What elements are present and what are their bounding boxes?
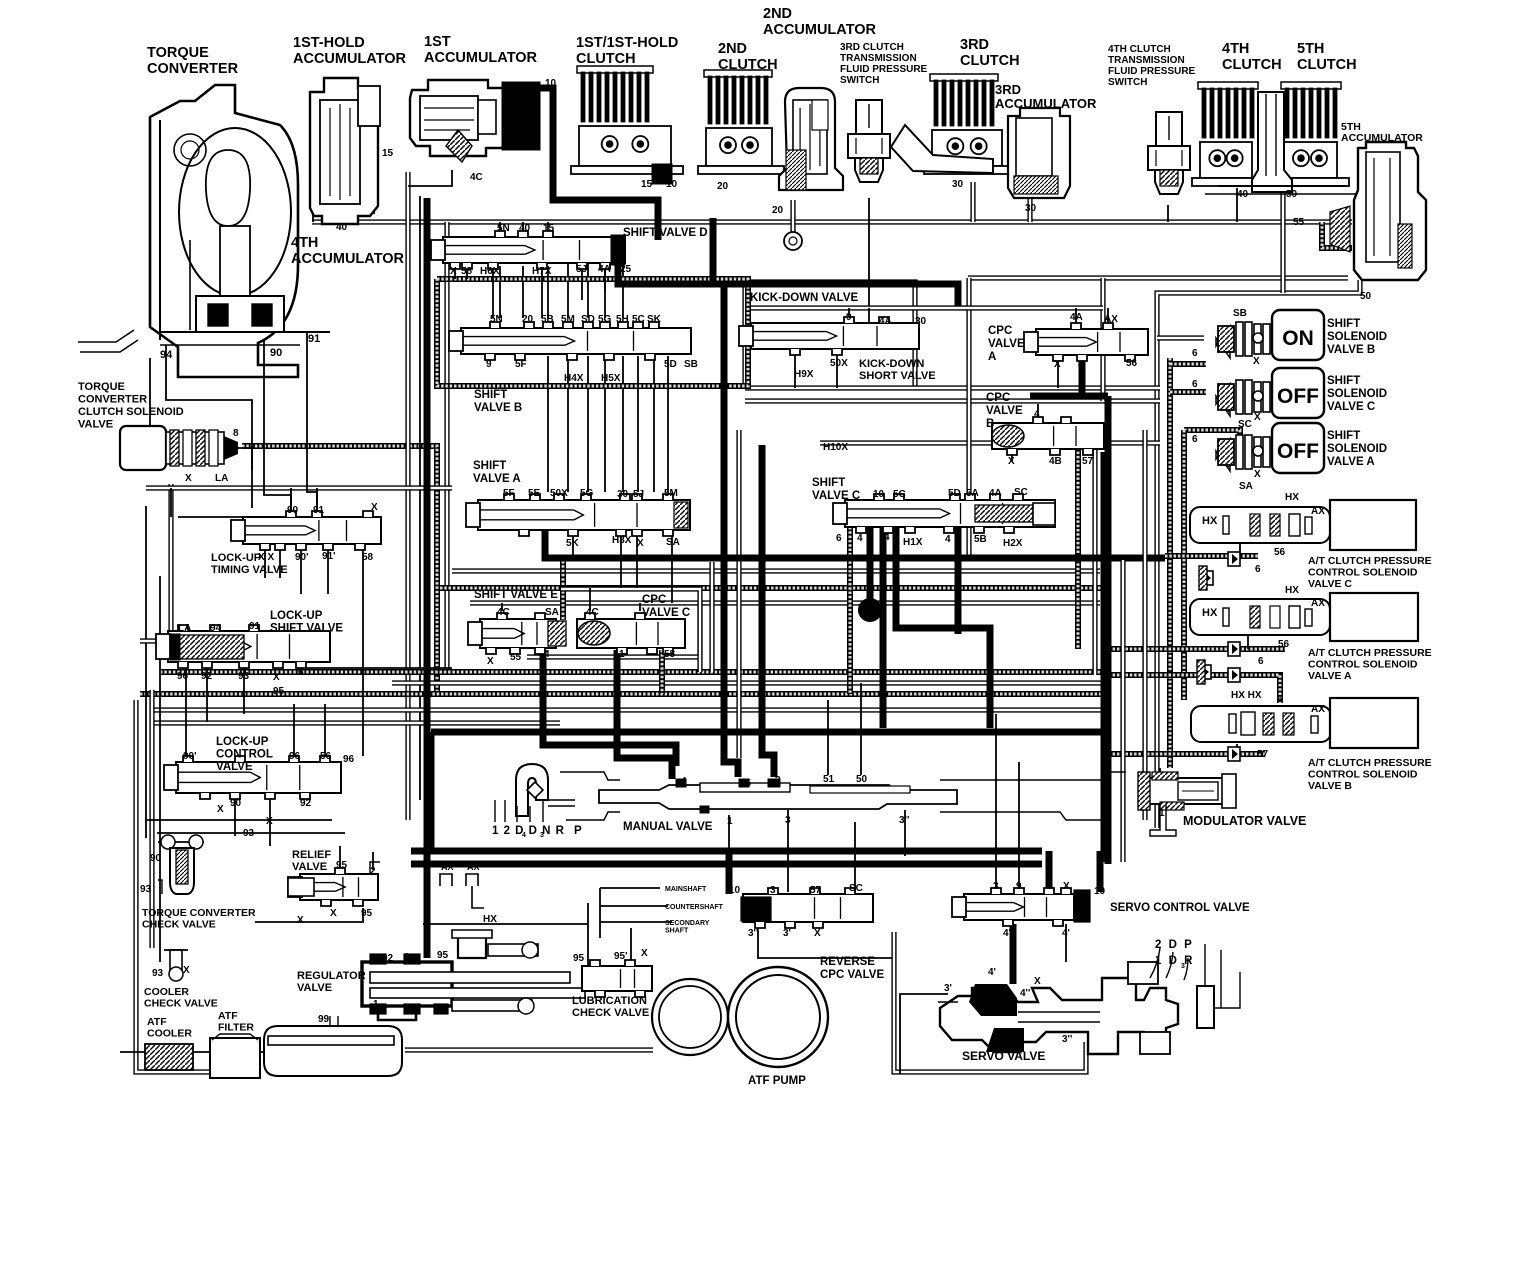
wire servo control feeds — [995, 714, 997, 892]
svg-text:95: 95 — [361, 908, 373, 919]
svg-text:50: 50 — [1360, 291, 1372, 302]
svg-text:90: 90 — [287, 505, 299, 516]
svg-text:3: 3 — [785, 815, 791, 826]
svg-text:SECONDARY: SECONDARY — [665, 920, 710, 927]
shift valve D VD — [431, 231, 625, 269]
svg-text:TORQUE: TORQUE — [78, 381, 125, 393]
svg-text:20: 20 — [717, 181, 729, 192]
svg-text:X: X — [217, 804, 224, 815]
regulator valve VREG — [362, 930, 585, 1020]
svg-text:4': 4' — [1062, 928, 1070, 939]
svg-text:HX: HX — [1202, 607, 1218, 619]
svg-text:91': 91' — [322, 551, 336, 562]
lock-up control valve VLC — [164, 756, 341, 799]
svg-text:5TH: 5TH — [1297, 41, 1324, 57]
svg-text:RELIEF: RELIEF — [292, 849, 331, 861]
svg-text:LA: LA — [215, 473, 228, 484]
svg-text:LA: LA — [178, 623, 191, 634]
svg-text:4TH: 4TH — [291, 235, 318, 251]
kick-down valve VKD — [739, 317, 919, 355]
wire mid band y710 — [152, 707, 1104, 712]
wire solenoid hatch line — [242, 446, 437, 692]
svg-text:AX: AX — [1104, 314, 1118, 325]
wire valveD bottom stubs — [454, 266, 456, 279]
svg-text:1 2 D D N R: 1 2 D D N R — [492, 825, 565, 837]
svg-text:20: 20 — [522, 314, 534, 325]
lock-up timing valve VLT — [231, 511, 381, 550]
svg-text:3'': 3'' — [748, 928, 758, 939]
svg-text:AX: AX — [441, 862, 454, 872]
svg-text:15: 15 — [382, 148, 394, 159]
svg-text:VALVE C: VALVE C — [1308, 578, 1352, 590]
svg-text:92: 92 — [382, 953, 394, 964]
svg-text:AX: AX — [1311, 506, 1325, 517]
svg-text:4: 4 — [544, 649, 550, 660]
svg-text:57: 57 — [1257, 749, 1269, 760]
cpc valve A CPCA — [1024, 323, 1148, 361]
svg-text:VALVE B: VALVE B — [1308, 780, 1352, 792]
svg-text:3: 3 — [770, 885, 776, 896]
svg-text:ACCUMULATOR: ACCUMULATOR — [763, 22, 877, 38]
svg-text:A: A — [988, 351, 996, 363]
svg-text:SHIFT: SHIFT — [1327, 375, 1360, 387]
wire lockup bottom rails — [147, 819, 332, 821]
at cps valve B CPSB — [1191, 698, 1418, 748]
svg-text:FLUID PRESSURE: FLUID PRESSURE — [1108, 66, 1196, 77]
svg-text:X: X — [641, 948, 648, 959]
svg-text:5N: 5N — [497, 223, 510, 234]
wire SB feed to solenoid — [1157, 335, 1204, 340]
1st/1st-hold clutch CL1 — [571, 66, 683, 174]
wire 55 elbow to 5th accumulator — [1322, 222, 1352, 248]
svg-text:VALVE C: VALVE C — [642, 607, 690, 619]
svg-text:30: 30 — [617, 489, 629, 500]
wire valveB top feeds — [567, 250, 569, 318]
wire lockup top frame — [146, 485, 452, 490]
svg-text:AX: AX — [1311, 704, 1325, 715]
svg-text:X: X — [1253, 356, 1260, 367]
svg-text:5M: 5M — [561, 314, 575, 325]
wire 58 drop — [362, 546, 364, 756]
svg-text:3'': 3'' — [899, 815, 909, 826]
at cps valve A CPSA — [1190, 593, 1418, 641]
svg-text:5B: 5B — [541, 314, 554, 325]
wire mid band y683 — [392, 680, 1104, 685]
svg-text:5G: 5G — [598, 314, 612, 325]
svg-text:5F: 5F — [503, 488, 515, 499]
svg-text:ATF PUMP: ATF PUMP — [748, 1075, 806, 1087]
wire soltc out — [238, 448, 252, 470]
svg-text:10: 10 — [729, 885, 741, 896]
svg-text:56: 56 — [320, 751, 332, 762]
wire mid y603 — [470, 600, 1100, 605]
wire lockup shift valve 6 out — [305, 667, 452, 669]
svg-text:10: 10 — [873, 489, 885, 500]
svg-text:3'': 3'' — [1062, 1034, 1072, 1045]
wire 3rd switch drop — [868, 198, 870, 308]
svg-text:SHIFT VALVE: SHIFT VALVE — [270, 623, 343, 635]
wire y924 run — [423, 923, 588, 925]
svg-text:A/T CLUTCH PRESSURE: A/T CLUTCH PRESSURE — [1308, 647, 1432, 659]
wire cpcA frame right — [1100, 278, 1105, 401]
svg-text:4: 4 — [1034, 409, 1040, 420]
svg-text:4A: 4A — [598, 264, 611, 275]
svg-text:1: 1 — [373, 999, 379, 1010]
svg-text:COOLER: COOLER — [144, 986, 189, 998]
svg-text:HX HX: HX HX — [1231, 690, 1262, 701]
svg-text:9: 9 — [1016, 881, 1022, 892]
wire valveC port6 hatch — [847, 527, 853, 694]
wire 94 drop — [166, 345, 252, 508]
wire servo control 4 thick — [1046, 851, 1053, 890]
torque converter clutch solenoid valve SOLTC — [120, 426, 238, 470]
svg-text:B: B — [986, 418, 994, 430]
svg-text:2: 2 — [775, 775, 781, 786]
black port block CL1 — [652, 164, 672, 184]
svg-text:57: 57 — [1082, 456, 1094, 467]
wire manual port1 drop — [728, 815, 730, 851]
shift solenoid valve B SSB — [1216, 310, 1324, 360]
wire regulator relief link — [255, 908, 363, 922]
wire servo frame right — [894, 932, 1086, 1072]
wire lockup timing left feed — [178, 516, 243, 518]
node ball check — [859, 599, 881, 621]
wire valveA bottom stubs — [572, 535, 574, 558]
svg-text:ACCUMULATOR: ACCUMULATOR — [995, 96, 1097, 111]
svg-text:40: 40 — [519, 223, 531, 234]
svg-text:6: 6 — [1255, 564, 1261, 575]
svg-text:58: 58 — [461, 266, 473, 277]
shift valve A VA — [466, 494, 690, 536]
svg-text:SB: SB — [684, 359, 698, 370]
wire pump to strainer — [405, 1047, 653, 1052]
wire hatch cps A — [1104, 646, 1285, 652]
svg-text:SHORT VALVE: SHORT VALVE — [859, 370, 936, 382]
svg-text:50: 50 — [1286, 189, 1298, 200]
svg-text:1: 1 — [404, 952, 410, 963]
svg-text:X: X — [637, 538, 644, 549]
check valve c1 — [1228, 552, 1240, 566]
wire left bundle v2 — [419, 196, 421, 800]
svg-text:4A: 4A — [1070, 312, 1083, 323]
svg-text:4A: 4A — [989, 488, 1002, 499]
svg-text:X: X — [814, 928, 821, 939]
svg-text:SC: SC — [1238, 419, 1252, 430]
svg-text:5D: 5D — [948, 488, 961, 499]
svg-text:5C: 5C — [632, 314, 645, 325]
wire thick valveC drops — [867, 524, 874, 600]
servo valve VSRV — [938, 944, 1240, 1054]
svg-text:CONTROL SOLENOID: CONTROL SOLENOID — [1308, 567, 1418, 579]
svg-text:3: 3 — [993, 881, 999, 892]
wire hatch x1078 — [1075, 443, 1081, 649]
svg-text:X: X — [1034, 976, 1041, 987]
svg-text:VALVE A: VALVE A — [473, 473, 521, 485]
svg-text:99: 99 — [318, 1014, 330, 1025]
4th clutch CL4 — [1192, 82, 1264, 186]
svg-text:92: 92 — [300, 798, 312, 809]
svg-text:CHECK VALVE: CHECK VALVE — [572, 1007, 649, 1019]
svg-text:X: X — [1063, 881, 1070, 892]
svg-text:P: P — [574, 825, 582, 837]
svg-text:4C: 4C — [470, 172, 483, 183]
cooler check valve VCC — [164, 950, 188, 981]
svg-text:96: 96 — [289, 751, 301, 762]
svg-text:95: 95 — [573, 953, 585, 964]
svg-text:3RD: 3RD — [960, 37, 989, 53]
svg-text:LOCK-UP: LOCK-UP — [216, 736, 269, 748]
wire mid band y672 — [160, 669, 1104, 675]
wire 30 3rd clutch — [970, 182, 975, 222]
svg-text:LOCK-UP: LOCK-UP — [270, 610, 323, 622]
svg-text:5D: 5D — [664, 359, 677, 370]
wire thick right x1108 — [1105, 396, 1112, 864]
svg-text:SC: SC — [1014, 487, 1028, 498]
manual lever — [495, 764, 575, 822]
svg-text:90: 90 — [230, 798, 242, 809]
svg-text:CLUTCH: CLUTCH — [718, 57, 778, 73]
wire hatch cps C — [1165, 553, 1258, 559]
svg-text:CONVERTER: CONVERTER — [147, 61, 239, 77]
svg-text:ACCUMULATOR: ACCUMULATOR — [291, 251, 405, 267]
shift valve B VB — [449, 322, 691, 360]
svg-text:CPC: CPC — [988, 325, 1012, 337]
svg-text:CHECK VALVE: CHECK VALVE — [142, 919, 216, 931]
AX bracket 2 — [466, 862, 484, 908]
svg-text:5C: 5C — [893, 489, 906, 500]
svg-text:30: 30 — [952, 179, 964, 190]
svg-text:VALVE C: VALVE C — [1327, 401, 1375, 413]
wire hatch cps B — [1104, 751, 1265, 757]
wire servo 4p — [1065, 924, 1067, 962]
svg-text:SHIFT: SHIFT — [474, 389, 507, 401]
svg-text:SHIFT: SHIFT — [812, 477, 845, 489]
svg-text:MAINSHAFT: MAINSHAFT — [665, 886, 707, 893]
5th accumulator ACC5 — [1330, 142, 1426, 280]
3rd clutch pressure switch SW3 — [848, 100, 890, 182]
wire valveB-valveA links — [547, 356, 549, 492]
svg-text:4: 4 — [857, 533, 863, 544]
svg-text:X X: X X — [258, 552, 274, 563]
svg-text:CONTROL: CONTROL — [216, 749, 273, 761]
svg-text:5B: 5B — [974, 534, 987, 545]
wire thick valveD cap drop — [618, 256, 958, 306]
svg-text:6: 6 — [298, 667, 304, 678]
svg-text:TRANSMISSION: TRANSMISSION — [1108, 55, 1185, 66]
wire frame y401 — [745, 398, 1160, 403]
3rd clutch CL3 — [891, 74, 1014, 174]
svg-text:CLUTCH SOLENOID: CLUTCH SOLENOID — [78, 406, 184, 418]
shift valve C VC — [833, 494, 1055, 533]
svg-text:X: X — [487, 656, 494, 667]
wire trunk 277 — [968, 275, 1348, 280]
svg-text:TIMING VALVE: TIMING VALVE — [211, 564, 288, 576]
wire lockup 90 91 feeds — [290, 488, 292, 512]
check valve a1 — [1228, 642, 1240, 656]
reverse cpc valve VRCPC — [741, 888, 873, 928]
svg-text:X: X — [185, 473, 192, 484]
wire lu timing top links — [170, 488, 172, 517]
wire 50 line — [1157, 280, 1360, 828]
svg-text:93: 93 — [152, 968, 164, 979]
servo control valve VSCV — [952, 888, 1090, 926]
svg-text:3RD: 3RD — [995, 82, 1021, 97]
svg-text:REVERSE: REVERSE — [820, 956, 875, 968]
svg-text:HX: HX — [1202, 515, 1218, 527]
wire 57 to reverse cpc — [854, 822, 856, 892]
svg-text:A/T CLUTCH PRESSURE: A/T CLUTCH PRESSURE — [1308, 555, 1432, 567]
svg-text:4B: 4B — [1049, 456, 1062, 467]
svg-text:5A: 5A — [966, 488, 979, 499]
svg-text:COOLER: COOLER — [147, 1028, 192, 1040]
svg-text:X: X — [273, 672, 280, 683]
svg-text:ACCUMULATOR: ACCUMULATOR — [293, 51, 407, 67]
svg-text:4C: 4C — [497, 607, 510, 618]
svg-text:5J: 5J — [633, 489, 644, 500]
svg-text:58: 58 — [362, 552, 374, 563]
svg-text:30: 30 — [915, 316, 927, 327]
svg-text:4: 4 — [681, 776, 687, 787]
svg-text:93: 93 — [243, 828, 255, 839]
wire thick servo 10 — [1097, 851, 1104, 892]
svg-text:COUNTERSHAFT: COUNTERSHAFT — [665, 904, 724, 911]
svg-text:6: 6 — [1258, 656, 1264, 667]
atf pump PUMP — [652, 967, 828, 1067]
atf filter FILT — [210, 1034, 260, 1078]
svg-text:3': 3' — [944, 983, 952, 994]
svg-text:5K: 5K — [566, 538, 580, 549]
wire LA feed — [140, 638, 168, 643]
wire left frame x146 — [145, 506, 147, 838]
wire thick x427 regulator main — [424, 198, 431, 958]
wire EC frame — [527, 589, 700, 657]
wire frame y443 — [820, 440, 1160, 445]
svg-text:93: 93 — [238, 671, 250, 682]
wire top trunk 222 — [312, 219, 1352, 224]
wire right x1123 — [1120, 560, 1125, 862]
svg-text:OFF: OFF — [1277, 440, 1319, 463]
wire cpcA frame left — [966, 278, 971, 560]
atf strainer PAN — [264, 1016, 402, 1076]
svg-text:3RD CLUTCH: 3RD CLUTCH — [840, 42, 904, 53]
svg-text:AX: AX — [1311, 598, 1325, 609]
svg-text:SA: SA — [545, 607, 559, 618]
svg-text:CHECK VALVE: CHECK VALVE — [144, 998, 218, 1010]
svg-text:FILTER: FILTER — [218, 1022, 254, 1034]
svg-text:X: X — [266, 816, 273, 827]
svg-text:CLUTCH: CLUTCH — [1222, 57, 1282, 73]
svg-text:CONTROL SOLENOID: CONTROL SOLENOID — [1308, 659, 1418, 671]
wire 40 4th clutch — [1236, 188, 1238, 222]
svg-text:50: 50 — [856, 774, 868, 785]
wire thick E4 to manual — [543, 650, 676, 766]
svg-text:10: 10 — [545, 78, 557, 89]
svg-text:SHAFT: SHAFT — [665, 928, 689, 935]
wire kickdown port drops — [794, 354, 796, 388]
svg-text:X: X — [183, 965, 190, 976]
svg-text:25: 25 — [740, 778, 752, 789]
wire 91 drop — [307, 332, 317, 514]
svg-text:SHIFT VALVE D: SHIFT VALVE D — [623, 227, 708, 239]
svg-text:6: 6 — [1192, 348, 1198, 359]
svg-text:LUBRICATION: LUBRICATION — [572, 995, 647, 1007]
torque converter check valve VTCC — [158, 835, 204, 894]
svg-text:2ND: 2ND — [718, 41, 747, 57]
svg-text:9: 9 — [846, 312, 852, 323]
svg-text:KICK-DOWN: KICK-DOWN — [859, 358, 924, 370]
svg-text:2: 2 — [370, 866, 376, 877]
svg-text:4TH: 4TH — [1222, 41, 1249, 57]
svg-text:1: 1 — [1159, 808, 1165, 819]
wire thick 1st accum feed — [538, 88, 658, 240]
wire mid hatch y588 — [440, 585, 1104, 591]
svg-text:SHIFT: SHIFT — [473, 460, 506, 472]
svg-text:TORQUE: TORQUE — [147, 45, 209, 61]
svg-text:SOLENOID: SOLENOID — [1327, 388, 1387, 400]
svg-text:6: 6 — [1192, 434, 1198, 445]
wire lockup control feeds — [293, 704, 295, 758]
svg-text:SK: SK — [647, 314, 662, 325]
svg-text:SOLENOID: SOLENOID — [1327, 443, 1387, 455]
svg-text:VALVE: VALVE — [78, 419, 113, 431]
modulator valve VMOD — [1138, 772, 1236, 836]
svg-text:10: 10 — [1094, 886, 1106, 897]
svg-text:CPC VALVE: CPC VALVE — [820, 969, 884, 981]
svg-text:4'': 4'' — [1003, 928, 1013, 939]
wire timing valve bottom stubs — [264, 548, 266, 578]
svg-text:1: 1 — [619, 649, 625, 660]
svg-text:6: 6 — [1277, 694, 1283, 705]
wire mid verticals x700 x712 x739 x762 — [697, 603, 702, 672]
svg-text:SB: SB — [1233, 308, 1247, 319]
svg-text:ATF: ATF — [147, 1016, 167, 1028]
svg-text:15: 15 — [641, 179, 653, 190]
check valve a3 — [1197, 660, 1211, 684]
svg-text:A/T CLUTCH PRESSURE: A/T CLUTCH PRESSURE — [1308, 757, 1432, 769]
svg-text:VALVE: VALVE — [297, 982, 332, 994]
clutch45 stem — [1205, 92, 1358, 194]
svg-text:ACCUMULATOR: ACCUMULATOR — [424, 50, 538, 66]
svg-text:3: 3 — [540, 832, 544, 839]
wire manual 3pp down — [904, 810, 906, 856]
wire mid band y694 — [140, 691, 1104, 697]
wire tc left hoses — [80, 340, 138, 352]
wire x1095 — [1092, 430, 1097, 675]
wire thick valveA 5K run — [545, 528, 1165, 558]
svg-text:10: 10 — [666, 179, 678, 190]
svg-text:SERVO CONTROL VALVE: SERVO CONTROL VALVE — [1110, 902, 1250, 914]
check valve b1 — [1228, 747, 1240, 761]
wire hatch y675 — [1104, 675, 1280, 703]
svg-text:5J: 5J — [576, 264, 587, 275]
svg-text:CLUTCH: CLUTCH — [1297, 57, 1357, 73]
wire thick cpcB 57 drop — [1101, 452, 1108, 862]
wire thick main vertical x724 — [724, 284, 738, 777]
svg-text:SHIFT VALVE E: SHIFT VALVE E — [474, 589, 558, 601]
wire servo frame — [900, 994, 948, 1074]
svg-text:96: 96 — [177, 671, 189, 682]
wire mid y571 — [452, 568, 1100, 573]
svg-text:SD: SD — [581, 314, 595, 325]
3rd accumulator ACC3 — [1008, 108, 1070, 198]
lubrication check valve VLUB — [582, 960, 652, 997]
svg-text:40: 40 — [1237, 189, 1249, 200]
wire thick C1 to manual 25 — [617, 650, 672, 779]
svg-text:VALVE B: VALVE B — [474, 402, 522, 414]
svg-text:4: 4 — [945, 534, 951, 545]
svg-text:H10X: H10X — [823, 442, 848, 453]
svg-text:55: 55 — [510, 652, 522, 663]
